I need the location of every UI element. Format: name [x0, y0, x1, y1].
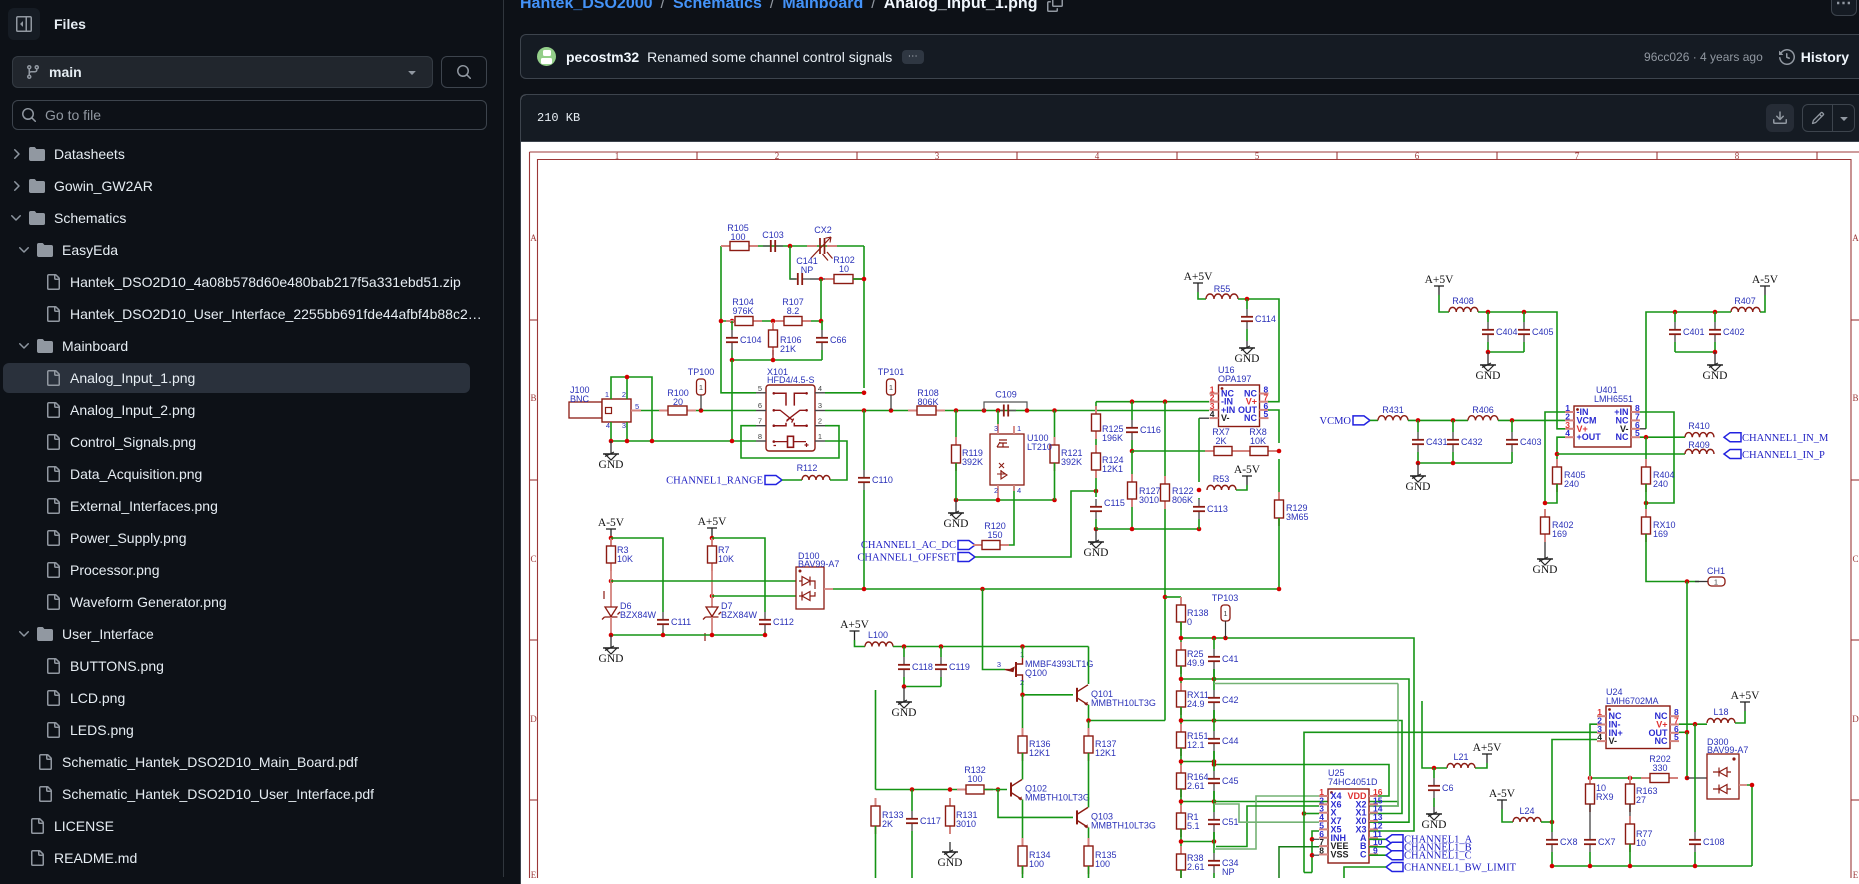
test point TP103	[1221, 605, 1230, 638]
wire A-5V to R53	[1236, 485, 1247, 490]
svg-text:C111: C111	[671, 617, 691, 627]
node junction C431	[1416, 418, 1421, 423]
capacitor C116	[1126, 420, 1138, 440]
test point TP101	[887, 379, 896, 410]
wire R134 bottom	[1022, 866, 1024, 878]
svg-text:392K: 392K	[1061, 457, 1082, 467]
svg-text:+OUT: +OUT	[1577, 432, 1602, 442]
svg-text:CHANNEL1_OFFSET: CHANNEL1_OFFSET	[857, 553, 956, 564]
node junction rail R119	[954, 498, 959, 503]
svg-text:5: 5	[758, 384, 762, 393]
resistor R163	[1626, 776, 1635, 812]
svg-text:R410: R410	[1688, 421, 1710, 431]
svg-text:49.9: 49.9	[1187, 658, 1205, 668]
wire A+5V to R55	[1198, 292, 1206, 299]
svg-text:CHANNEL1_AC_DC: CHANNEL1_AC_DC	[861, 540, 956, 551]
ground symbol C402	[1703, 352, 1728, 382]
resistor R77	[1626, 816, 1635, 852]
node junction C6	[1432, 766, 1437, 771]
svg-text:169: 169	[1653, 529, 1668, 539]
net label CHANNEL1_OFFSET	[857, 553, 956, 564]
svg-text:C66: C66	[830, 335, 847, 345]
svg-text:CHANNEL1_BW_LIMIT: CHANNEL1_BW_LIMIT	[1404, 863, 1517, 874]
node junction rail C41 bottom	[1212, 677, 1217, 682]
node junction bottom D6	[609, 633, 614, 638]
wire D6 node to D100	[611, 580, 798, 582]
node junction R129 bottom	[1277, 587, 1282, 592]
svg-text:TP103: TP103	[1212, 593, 1239, 603]
wire -IN line	[1096, 401, 1209, 403]
ground symbol C115	[1084, 529, 1109, 559]
wire V- riser	[1552, 740, 1597, 823]
wire J100 shield top loop	[611, 377, 652, 441]
wire pin15 feed	[1214, 683, 1398, 685]
node junction rail U100	[996, 498, 1001, 503]
svg-text:3M65: 3M65	[1286, 512, 1309, 522]
svg-text:5: 5	[1635, 428, 1640, 438]
svg-text:NC: NC	[1655, 736, 1668, 746]
svg-text:A: A	[1852, 233, 1859, 243]
node junction rail RX11 bottom	[1179, 718, 1184, 723]
node junction R131 top	[948, 787, 953, 792]
svg-text:3: 3	[994, 424, 998, 433]
svg-text:A+5V: A+5V	[698, 516, 728, 528]
resistor R120	[973, 541, 1009, 550]
wire R202 to D300	[1687, 777, 1707, 779]
node junction C119	[939, 644, 944, 649]
node junction R132/Q102	[996, 787, 1001, 792]
node junction bottom C111	[661, 633, 666, 638]
svg-text:100: 100	[1029, 859, 1044, 869]
node junction CH1	[1685, 579, 1690, 584]
wire A+5V rail to R408	[1439, 295, 1449, 312]
node junction C113 gnd rail	[1197, 527, 1202, 532]
wire R138 top from x1164	[1165, 596, 1181, 598]
capacitor C115	[1090, 499, 1102, 519]
svg-text:A+5V: A+5V	[1184, 271, 1214, 283]
wire U401 V- black stub	[1631, 428, 1646, 430]
node junction rail R25 bottom	[1179, 677, 1184, 682]
svg-text:C: C	[1852, 554, 1858, 564]
svg-text:C109: C109	[995, 390, 1017, 400]
node junction rail C42 bottom	[1212, 718, 1217, 723]
ic U100 LT210	[990, 424, 1024, 500]
svg-text:MMBTH10LT3G: MMBTH10LT3G	[1025, 793, 1090, 803]
wire R409 row	[1557, 453, 1685, 455]
svg-text:10K: 10K	[718, 554, 734, 564]
node junction C116/RX7 rail	[1130, 449, 1135, 454]
inductor R409	[1685, 449, 1714, 454]
svg-text:R431: R431	[1382, 405, 1404, 415]
net flag CHANNEL1_RANGE	[666, 476, 763, 487]
wire C45 stubs	[1213, 751, 1215, 771]
wire X7 route pale	[1214, 804, 1319, 822]
resistor R129	[1275, 492, 1284, 526]
resistor R125	[1092, 406, 1101, 439]
wire L100 rail	[893, 646, 1089, 648]
wire R135 bottom	[1088, 866, 1090, 878]
wire Q103 emitter to R135	[1088, 827, 1090, 846]
wire ladder rail y800.5	[1180, 789, 1182, 814]
inductor L100	[865, 642, 893, 647]
node junction U24 OUT	[1685, 730, 1690, 735]
capacitor C114	[1241, 309, 1253, 329]
wire bottom tie rail	[1304, 872, 1312, 874]
wire C404 bottom rail	[1488, 351, 1524, 353]
resistor RX8	[1241, 447, 1277, 456]
inductor R53	[1207, 485, 1236, 490]
svg-text:MMBTH10LT3G: MMBTH10LT3G	[1091, 698, 1156, 708]
svg-text:C403: C403	[1520, 437, 1542, 447]
svg-text:24.9: 24.9	[1187, 699, 1205, 709]
ground symbol C404	[1476, 352, 1501, 382]
wire A+5V to L18	[1735, 711, 1745, 723]
svg-text:C117: C117	[920, 816, 941, 826]
svg-text:CHANNEL1_C: CHANNEL1_C	[1404, 851, 1472, 862]
resistor R202	[1641, 774, 1678, 783]
node junction R402 top	[1543, 501, 1548, 506]
wire RX8 node to R129	[1278, 459, 1280, 500]
svg-text:1: 1	[1714, 578, 1718, 587]
svg-text:GND: GND	[1703, 370, 1728, 382]
wire X101 pin3 to main line	[825, 410, 917, 412]
node junction C401	[1673, 310, 1678, 315]
node junction L24/CX8	[1550, 820, 1555, 825]
capacitor C402	[1709, 322, 1721, 342]
test point TP100	[697, 379, 706, 410]
svg-text:4: 4	[1017, 486, 1021, 495]
wire junction down to R107 rail	[820, 279, 822, 321]
svg-text:3: 3	[622, 421, 626, 430]
node junction rail C51 bottom	[1212, 839, 1217, 844]
wire U24 OUT junction	[1679, 731, 1687, 733]
svg-text:C: C	[530, 554, 536, 564]
node junction C104 top	[730, 319, 735, 324]
wire R121 top stub	[1054, 411, 1056, 446]
inductor R431	[1378, 416, 1408, 421]
transistor Q100 MMBF4393LT1G JFET	[1005, 658, 1023, 681]
ground symbol C114	[1235, 341, 1260, 365]
svg-text:C44: C44	[1222, 736, 1239, 746]
svg-text:10K: 10K	[1250, 436, 1266, 446]
svg-text:2: 2	[818, 417, 822, 426]
wire R127 stubs	[1131, 451, 1133, 474]
wire Q103 base branch	[998, 790, 1073, 818]
wire U401 -IN feedback	[1545, 412, 1565, 503]
resistor RX11	[1177, 683, 1186, 715]
svg-text:392K: 392K	[962, 457, 983, 467]
resistor R25	[1177, 642, 1186, 674]
capacitor C6	[1428, 778, 1440, 798]
node junction VSS	[1310, 853, 1315, 858]
svg-text:A+5V: A+5V	[840, 619, 870, 631]
wire ladder rail y760.5	[1180, 748, 1182, 774]
svg-text:169: 169	[1552, 529, 1567, 539]
wire x1164 riser	[1164, 597, 1166, 721]
wire RX9 to CX7	[1589, 804, 1591, 832]
svg-text:VCMO: VCMO	[1319, 416, 1351, 427]
wire Q100 drain stub	[1022, 647, 1024, 659]
wire J100 pin2 up	[626, 377, 628, 399]
svg-text:BAV99-A7: BAV99-A7	[798, 559, 839, 569]
wire R404 to RX10	[1645, 484, 1647, 517]
wire shield ground rail	[610, 440, 756, 442]
resistor R3	[607, 538, 616, 571]
node junction Q100 drain	[1020, 644, 1025, 649]
svg-text:330: 330	[1652, 763, 1667, 773]
svg-text:C114: C114	[1255, 314, 1276, 324]
svg-text:806K: 806K	[917, 397, 938, 407]
svg-text:C108: C108	[1703, 837, 1725, 847]
svg-text:8.2: 8.2	[787, 306, 800, 316]
wire R102 to loop right	[853, 278, 864, 280]
node junction C431 bottom	[1416, 461, 1421, 466]
power A+5V L21	[1473, 742, 1503, 763]
svg-text:20: 20	[673, 397, 683, 407]
capacitor C113	[1193, 499, 1205, 519]
wire ladder rail y840.5	[1180, 829, 1182, 854]
node junction C141/R102	[819, 277, 824, 282]
net label VCMO	[1319, 416, 1351, 427]
inductor R55	[1206, 294, 1238, 299]
wire clamp bottom rail	[611, 634, 765, 636]
node junction R107/C66	[819, 319, 824, 324]
node junction Q101 emitter	[1086, 718, 1091, 723]
wire R3 top rail to C111	[611, 538, 663, 612]
svg-text:BZX84W: BZX84W	[721, 610, 758, 620]
capacitor C141	[790, 273, 810, 285]
svg-text:C51: C51	[1222, 817, 1239, 827]
svg-text:R406: R406	[1472, 405, 1494, 415]
wire R106 network bottom rail	[732, 359, 822, 361]
node junction TP101	[889, 408, 894, 413]
resistor R7	[708, 538, 717, 571]
capacitor CX7	[1584, 832, 1596, 852]
svg-text:12K1: 12K1	[1095, 748, 1116, 758]
ground symbol attenuator	[944, 500, 969, 530]
node junction R3/D6/D100	[609, 579, 614, 584]
net label CHANNEL1_AC_DC	[861, 540, 956, 551]
wire R119 top stub	[955, 411, 957, 446]
node junction rail C45 bottom	[1212, 799, 1217, 804]
resistor R107	[775, 317, 811, 326]
net flag CHANNEL1_IN_P	[1724, 450, 1741, 459]
svg-text:0: 0	[1187, 617, 1192, 627]
svg-text:R112: R112	[797, 463, 818, 473]
capacitor C110	[858, 470, 870, 490]
svg-text:27: 27	[1636, 795, 1646, 805]
resistor R138	[1177, 597, 1186, 630]
node junction rail C104 branch	[730, 439, 735, 444]
power A+5V clamp	[698, 516, 728, 537]
wire BW limit flag to edge	[1344, 867, 1386, 878]
svg-text:7: 7	[1575, 151, 1580, 161]
node junction D100/C110	[862, 587, 867, 592]
svg-text:NP: NP	[801, 265, 814, 275]
diode D100 BAV99-A7 dual	[796, 567, 833, 609]
wire R119 stub	[955, 463, 957, 500]
svg-text:C: C	[1360, 849, 1367, 859]
wire C141 to junction	[810, 278, 825, 280]
wire VEE route	[1279, 847, 1319, 878]
wire R408 rail to V+ drop	[1478, 312, 1565, 429]
svg-text:CHANNEL1_RANGE: CHANNEL1_RANGE	[666, 476, 763, 487]
power A+5V U401	[1425, 274, 1455, 295]
node junction C432	[1451, 418, 1456, 423]
node junction rail637 C41	[1212, 636, 1217, 641]
wire C118 bottom rail	[904, 686, 941, 688]
node junction rail R164 bottom	[1179, 799, 1184, 804]
wire X4 route pale	[1214, 796, 1319, 849]
svg-text:3: 3	[935, 151, 940, 161]
resistor R104	[726, 317, 762, 326]
node junction pin4 comp loop	[862, 391, 867, 396]
svg-text:5.1: 5.1	[1187, 821, 1200, 831]
wire C41 stubs	[1213, 638, 1215, 649]
svg-text:5: 5	[1674, 732, 1679, 742]
svg-text:C112: C112	[773, 617, 794, 627]
svg-text:8: 8	[1319, 845, 1324, 855]
resistor R404	[1642, 459, 1651, 492]
svg-text:L21: L21	[1453, 752, 1468, 762]
capacitor C44	[1208, 731, 1220, 751]
svg-text:C41: C41	[1222, 654, 1239, 664]
schematic sheet border frame	[530, 152, 1859, 878]
wire U24 IN- feedback	[1590, 724, 1650, 778]
svg-text:1: 1	[818, 432, 822, 441]
svg-text:12K1: 12K1	[1029, 748, 1050, 758]
node junction C114	[1245, 297, 1250, 302]
svg-text:6: 6	[758, 401, 762, 410]
svg-text:1: 1	[1223, 609, 1227, 618]
svg-text:C116: C116	[1140, 425, 1161, 435]
wire R77 bottom	[1629, 844, 1631, 866]
node junction R124/C115/offset	[1094, 489, 1099, 494]
node junction R119 top	[954, 408, 959, 413]
node junction R409 tap	[1555, 452, 1560, 457]
wire V- to R53 node	[1199, 417, 1209, 419]
node junction rail CX8	[1550, 864, 1555, 869]
svg-text:C113: C113	[1207, 504, 1228, 514]
wire R112 to X101 pin1	[825, 441, 847, 480]
resistor RX10	[1642, 509, 1651, 542]
node junction C432 bottom	[1451, 461, 1456, 466]
svg-text:C118: C118	[912, 662, 933, 672]
svg-text:100: 100	[967, 774, 982, 784]
wire flag to R120	[975, 544, 978, 546]
svg-text:100: 100	[730, 232, 745, 242]
capacitor C103	[763, 240, 783, 252]
capacitor C112	[759, 612, 771, 632]
svg-text:3: 3	[997, 660, 1001, 669]
node junction C110 tap	[862, 408, 867, 413]
resistor R131	[946, 798, 955, 834]
svg-text:V-: V-	[1221, 413, 1230, 423]
node junction RX8/R129	[1277, 449, 1282, 454]
svg-text:2.61: 2.61	[1187, 862, 1205, 872]
svg-text:C401: C401	[1683, 327, 1705, 337]
svg-text:A-5V: A-5V	[1489, 788, 1516, 800]
node junction rail CX7	[1588, 864, 1593, 869]
wire X5 INH VSS tie	[1312, 831, 1319, 873]
node junction rail637 R138	[1179, 636, 1184, 641]
svg-text:3010: 3010	[1139, 495, 1159, 505]
diode D300 BAV99-A7 dual	[1707, 754, 1747, 799]
wire X pin3 stub	[1304, 813, 1319, 815]
node junction R121 top	[1052, 408, 1057, 413]
svg-text:150: 150	[987, 530, 1002, 540]
svg-text:OPA197: OPA197	[1218, 374, 1251, 384]
ground symbol C6	[1422, 807, 1447, 831]
node junction R138 rail tap	[1163, 595, 1168, 600]
node junction R127 gnd rail	[1130, 527, 1135, 532]
node junction rail/C104	[730, 358, 735, 363]
inductor L24	[1513, 818, 1541, 823]
wire U401 +OUT to R405	[1557, 437, 1565, 467]
wire R137 column top	[1088, 721, 1090, 737]
diode D6 BZX84W zener	[602, 571, 620, 635]
inductor R410	[1685, 433, 1714, 438]
wire loop right vertical	[863, 246, 865, 388]
capacitor C104	[726, 330, 738, 350]
svg-text:MMBTH10LT3G: MMBTH10LT3G	[1091, 820, 1156, 830]
svg-text:196K: 196K	[1102, 433, 1123, 443]
capacitor C108	[1689, 832, 1701, 852]
wire VCM line	[1408, 419, 1468, 421]
wire R163 to R77	[1629, 804, 1631, 824]
svg-text:4: 4	[818, 384, 822, 393]
svg-text:NC: NC	[1244, 413, 1257, 423]
svg-text:NC: NC	[1616, 432, 1629, 442]
svg-text:C402: C402	[1723, 327, 1745, 337]
resistor R136	[1018, 728, 1027, 761]
resistor R134	[1018, 838, 1027, 874]
node junction rail R1 bottom	[1179, 839, 1184, 844]
svg-text:TP101: TP101	[878, 367, 905, 377]
svg-text:C431: C431	[1426, 437, 1448, 447]
wire L24 to V- node	[1541, 821, 1552, 823]
wire RX7 rail	[1132, 450, 1205, 452]
svg-text:V-: V-	[1609, 736, 1618, 746]
node junction C109 left	[982, 408, 987, 413]
power A+5V L18	[1731, 690, 1761, 711]
svg-text:A+5V: A+5V	[1473, 742, 1503, 754]
capacitor C34	[1208, 853, 1220, 873]
wire R405 to R402 node	[1545, 484, 1557, 503]
resistor R38	[1177, 846, 1186, 878]
svg-text:LT210: LT210	[1027, 442, 1052, 452]
svg-text:C432: C432	[1461, 437, 1483, 447]
multiplexer U25 74HC4051D	[1319, 787, 1383, 863]
wire C431 bottom rail	[1418, 462, 1512, 464]
node junction rail J100-4	[609, 439, 614, 444]
node junction R163 top	[1628, 776, 1633, 781]
power A-5V R53	[1234, 464, 1261, 485]
wire A-5V rail to R407	[1760, 295, 1765, 312]
svg-text:C6: C6	[1442, 783, 1454, 793]
wire D300 right down to rail	[1747, 785, 1752, 866]
node junction R53/C113	[1197, 488, 1202, 493]
capacitor C118	[898, 657, 910, 677]
wire U401 -OUT to R410	[1640, 436, 1685, 438]
wire RX10 to CH1	[1646, 534, 1699, 582]
svg-text:2: 2	[994, 486, 998, 495]
svg-text:GND: GND	[1406, 481, 1431, 493]
node junction C109 right	[1025, 408, 1030, 413]
resistor R106	[769, 322, 778, 355]
wire mux X2 riser	[1369, 684, 1398, 807]
resistor R151	[1177, 724, 1186, 756]
